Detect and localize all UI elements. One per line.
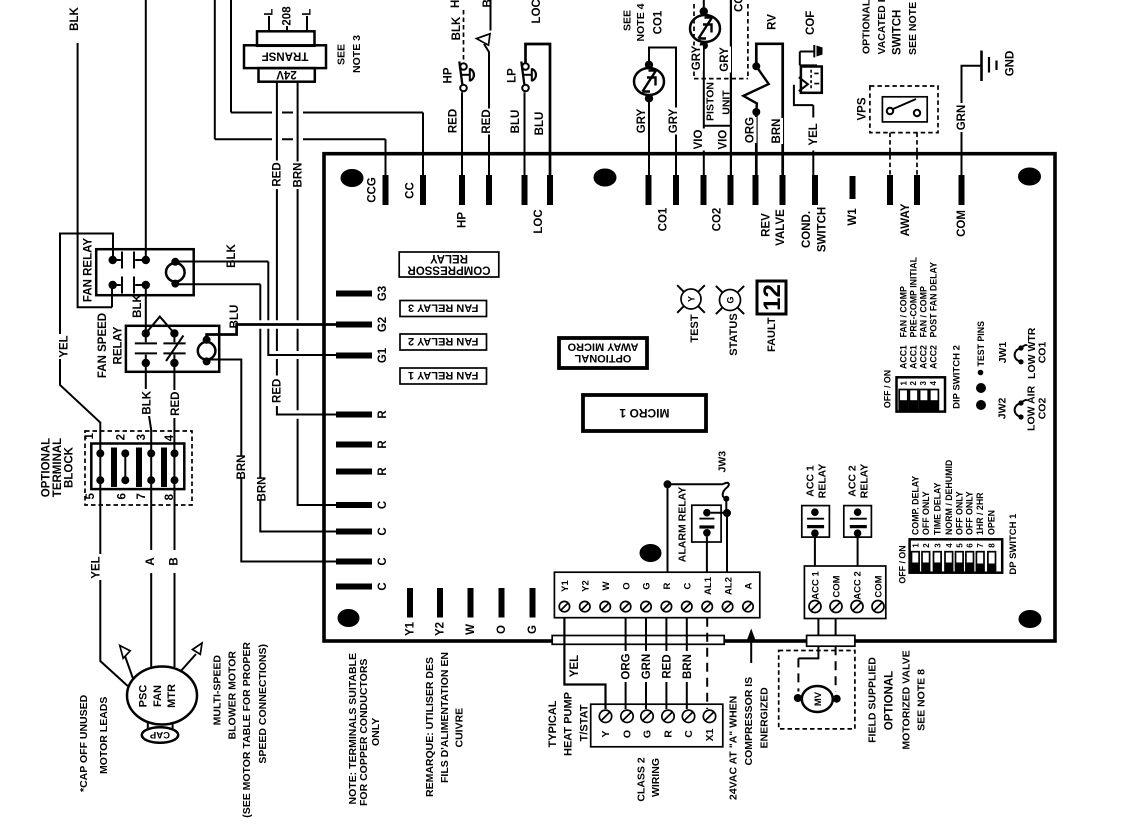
dashed BLK wire above HP: [463, 10, 465, 63]
svg-text:COF: COF: [805, 11, 817, 35]
svg-text:HP: HP: [457, 212, 469, 228]
wire BLK fan speed relay to block pin3: [146, 363, 151, 489]
svg-text:FAN RELAY 2: FAN RELAY 2: [408, 335, 478, 347]
svg-text:FAULT: FAULT: [766, 317, 778, 352]
wire YEL Y1 to tstat: [564, 618, 605, 709]
fault display 12: [757, 281, 786, 314]
terminal R1: [336, 412, 372, 418]
svg-text:VACATED PREMISES: VACATED PREMISES: [876, 0, 888, 55]
motorized valve MV: [794, 694, 802, 702]
svg-text:OPTIONAL: OPTIONAL: [40, 438, 52, 497]
arrow to A: [750, 641, 752, 663]
svg-text:FAN / COMP: FAN / COMP: [919, 286, 929, 337]
svg-text:Y1: Y1: [560, 579, 571, 591]
svg-text:RED: RED: [481, 109, 493, 133]
terminal G1: [336, 353, 372, 359]
svg-text:AWAY MICRO: AWAY MICRO: [567, 341, 638, 353]
svg-text:POST FAN DELAY: POST FAN DELAY: [929, 262, 939, 338]
unused lead arrow right: [180, 654, 196, 672]
svg-text:R: R: [662, 582, 673, 589]
svg-text:TEST: TEST: [689, 314, 701, 342]
dip switch 2: [897, 377, 946, 411]
svg-text:G1: G1: [377, 347, 389, 363]
svg-text:2: 2: [922, 543, 931, 548]
svg-text:Y2: Y2: [581, 580, 592, 592]
svg-text:REMARQUE: UTILISER DES: REMARQUE: UTILISER DES: [424, 657, 436, 797]
wire fan relay coil bottom to C2: [175, 284, 336, 531]
svg-text:RED: RED: [661, 654, 673, 678]
wire CCG feed horizontal: [215, 138, 386, 140]
wire BLK fan relay to fan speed relay: [145, 285, 147, 333]
wire CO1 loop: [649, 48, 676, 177]
terminal RV1: [753, 175, 759, 205]
micro 1 box: [583, 395, 706, 431]
terminal block body: [91, 444, 184, 490]
fan speed relay pins: [142, 329, 150, 337]
svg-text:PRE-COMP INITIAL: PRE-COMP INITIAL: [908, 256, 918, 337]
svg-text:24V: 24V: [276, 68, 297, 80]
svg-text:FAN SPEED: FAN SPEED: [97, 313, 109, 378]
svg-text:R: R: [377, 440, 389, 449]
svg-text:GRY: GRY: [691, 45, 703, 70]
svg-text:W1: W1: [847, 208, 859, 226]
terminal CCG: [383, 175, 389, 205]
svg-text:FAN / COMP: FAN / COMP: [898, 286, 908, 337]
svg-text:COMPRESSOR IS: COMPRESSOR IS: [743, 677, 755, 766]
svg-text:T/STAT: T/STAT: [578, 704, 590, 741]
svg-text:CO1: CO1: [658, 207, 670, 231]
svg-text:O: O: [622, 730, 634, 738]
unused lead arrow left: [125, 656, 134, 680]
terminal R2: [336, 442, 372, 448]
svg-text:ALARM RELAY: ALARM RELAY: [676, 487, 688, 562]
svg-text:CO: CO: [734, 0, 746, 12]
svg-text:SWITCH: SWITCH: [892, 10, 904, 55]
svg-text:STATUS: STATUS: [728, 313, 740, 355]
svg-text:R: R: [377, 410, 389, 419]
reversing valve coil RV: [756, 44, 782, 176]
svg-text:*CAP OFF UNUSED: *CAP OFF UNUSED: [78, 694, 90, 792]
svg-text:COND.: COND.: [801, 211, 813, 248]
wire RED HP to board: [461, 92, 463, 176]
svg-text:SPEED CONNECTIONS): SPEED CONNECTIONS): [257, 644, 269, 764]
wire from top to fan relay pin2: [145, 0, 147, 260]
wire CC stub: [422, 113, 424, 177]
dashed wires VPS to AWAY: [890, 133, 917, 176]
svg-text:JW3: JW3: [717, 451, 729, 473]
svg-text:FIELD SUPPLIED: FIELD SUPPLIED: [866, 657, 878, 743]
svg-text:REV: REV: [761, 213, 773, 237]
svg-text:AWAY: AWAY: [900, 203, 912, 236]
svg-text:ENERGIZED: ENERGIZED: [759, 687, 771, 749]
svg-text:CUIVRE: CUIVRE: [454, 708, 466, 748]
svg-text:5: 5: [955, 543, 964, 548]
piston unit rung: [704, 125, 731, 127]
svg-text:SEE NOTE 8: SEE NOTE 8: [916, 669, 928, 731]
terminal HP2: [486, 175, 492, 205]
wire COF to COND SWITCH: [794, 85, 813, 176]
wire CCG feed vertical: [214, 0, 216, 139]
svg-text:BLU: BLU: [229, 305, 241, 329]
terminal G2: [336, 322, 372, 328]
svg-text:BLOCK: BLOCK: [64, 446, 76, 488]
wire B block to motor: [174, 489, 176, 667]
ground symbol: [980, 51, 983, 82]
wire GRN: [645, 618, 647, 709]
svg-text:CC: CC: [405, 182, 417, 199]
svg-text:NOTE 4: NOTE 4: [635, 3, 647, 41]
fan relay contacts: [122, 252, 134, 294]
svg-text:B: B: [169, 557, 181, 565]
terminal CC: [420, 175, 426, 205]
thermistor CO1: [634, 68, 664, 95]
fan speed relay NO contact: [135, 343, 157, 353]
svg-text:ACC 2: ACC 2: [846, 465, 858, 497]
terminal Y1 (board bottom edge): [407, 588, 413, 618]
wire BRN coil to C3: [207, 360, 336, 562]
svg-text:C: C: [377, 582, 389, 590]
wire CO1 down: [648, 98, 650, 176]
svg-text:3: 3: [933, 543, 942, 548]
wire BRN transformer to C1: [298, 82, 336, 506]
svg-text:BLU: BLU: [510, 110, 522, 134]
wire BLU LP to board: [524, 92, 526, 176]
svg-text:AL2: AL2: [723, 577, 734, 595]
fan relay FR: [96, 249, 194, 295]
svg-text:1: 1: [900, 381, 909, 386]
svg-text:HEAT PUMP: HEAT PUMP: [562, 692, 574, 756]
svg-text:OFF ONLY: OFF ONLY: [965, 491, 975, 535]
svg-text:YEL: YEL: [91, 556, 103, 578]
svg-text:YEL: YEL: [569, 655, 581, 677]
svg-text:YEL: YEL: [808, 123, 820, 145]
svg-text:BRN: BRN: [256, 477, 268, 502]
wire GRN COM to GND: [962, 66, 982, 176]
fan speed relay linkage tent: [146, 317, 175, 334]
wire AL1 dashed to X1: [706, 618, 708, 709]
svg-text:RED: RED: [272, 162, 284, 186]
svg-text:CO1: CO1: [653, 10, 665, 34]
svg-text:DIP SWITCH 2: DIP SWITCH 2: [952, 345, 963, 409]
svg-text:CAP: CAP: [149, 729, 170, 740]
svg-text:RED: RED: [170, 392, 182, 416]
terminal C4: [336, 584, 372, 590]
svg-text:DP SWITCH 1: DP SWITCH 1: [1008, 513, 1019, 575]
svg-text:OPEN: OPEN: [987, 510, 997, 535]
svg-text:ACC1: ACC1: [898, 345, 908, 369]
svg-text:Y: Y: [600, 730, 612, 737]
svg-text:LOC: LOC: [531, 0, 543, 23]
svg-text:RELAY: RELAY: [113, 326, 125, 364]
svg-text:RV: RV: [767, 14, 779, 30]
terminal O: [499, 588, 505, 618]
svg-text:RELAY: RELAY: [816, 464, 828, 499]
svg-text:4: 4: [945, 543, 954, 548]
svg-text:B: B: [482, 0, 494, 8]
svg-text:OPTIONAL: OPTIONAL: [884, 671, 896, 730]
svg-text:Y2: Y2: [435, 622, 447, 636]
fan relay coil: [166, 263, 185, 282]
svg-text:FAN RELAY: FAN RELAY: [83, 238, 95, 302]
svg-text:NORM / DEHUMID: NORM / DEHUMID: [944, 460, 954, 535]
mounting hole bottom-left: [338, 609, 360, 627]
blower motor: [127, 667, 197, 725]
terminal AWAY2: [914, 175, 920, 205]
svg-text:AL1: AL1: [703, 576, 714, 595]
svg-text:8: 8: [988, 543, 997, 548]
svg-text:NOTE 3: NOTE 3: [351, 35, 363, 73]
svg-text:FAN RELAY 3: FAN RELAY 3: [408, 302, 478, 314]
terminal W: [468, 588, 474, 618]
terminal CO1a: [646, 175, 652, 205]
svg-text:X1: X1: [704, 728, 716, 741]
svg-text:L: L: [302, 9, 314, 16]
svg-text:HP: HP: [443, 67, 455, 83]
svg-text:FAN: FAN: [152, 685, 164, 707]
terminal LOC1: [522, 175, 528, 205]
svg-text:LP: LP: [507, 68, 519, 83]
fan relay 2 box: [400, 334, 487, 350]
svg-text:A: A: [145, 557, 157, 565]
mounting hole top-middle: [594, 169, 617, 187]
svg-text:Y: Y: [687, 296, 697, 302]
svg-text:MV: MV: [813, 691, 824, 706]
svg-text:BLU: BLU: [534, 112, 546, 136]
transformer line stubs: [268, 16, 270, 31]
svg-text:ACC 1: ACC 1: [804, 465, 816, 497]
svg-text:GND: GND: [1005, 51, 1017, 77]
svg-text:C: C: [377, 501, 389, 509]
terminal COM: [959, 175, 965, 205]
wire A block to motor: [150, 489, 152, 668]
terminal block bars: [111, 448, 117, 488]
svg-text:SEE: SEE: [335, 44, 347, 65]
wire BLU coil to G2: [207, 325, 336, 340]
terminal strip box: [554, 572, 759, 618]
svg-text:BRN: BRN: [292, 163, 304, 188]
terminal G: [530, 588, 536, 618]
svg-text:VPS: VPS: [857, 97, 869, 120]
svg-text:2: 2: [909, 381, 918, 386]
wire fan relay coil top to G1: [175, 262, 336, 356]
svg-text:BLK: BLK: [132, 293, 144, 317]
svg-text:OFF ONLY: OFF ONLY: [921, 491, 931, 535]
terminal AWAY1: [887, 175, 893, 205]
terminal W1: [850, 176, 856, 199]
svg-text:ACC1: ACC1: [908, 345, 918, 369]
wire RED with arrow to BLK line: [484, 44, 489, 176]
svg-text:FOR COPPER CONDUCTORS: FOR COPPER CONDUCTORS: [358, 659, 370, 806]
wire BRN: [686, 618, 688, 709]
svg-text:YEL: YEL: [59, 335, 71, 357]
svg-text:VIO: VIO: [693, 130, 705, 150]
svg-text:R: R: [663, 730, 675, 738]
svg-text:BRN: BRN: [771, 119, 783, 144]
line from top at HP2: [490, 0, 492, 31]
svg-text:JW2: JW2: [996, 397, 1008, 419]
svg-text:OPTIONAL: OPTIONAL: [861, 0, 873, 54]
svg-text:CO1: CO1: [1036, 342, 1048, 364]
terminal C2: [336, 529, 372, 535]
svg-text:7: 7: [136, 493, 148, 499]
svg-text:G3: G3: [377, 286, 389, 301]
svg-text:ONLY: ONLY: [370, 718, 382, 746]
svg-text:1HR / 2HR: 1HR / 2HR: [975, 492, 985, 535]
svg-text:MOTOR LEADS: MOTOR LEADS: [98, 697, 110, 774]
svg-text:CLASS 2: CLASS 2: [635, 757, 647, 802]
svg-text:OFF / ON: OFF / ON: [898, 545, 908, 583]
svg-text:TEST PINS: TEST PINS: [976, 321, 986, 367]
svg-text:ORG: ORG: [621, 653, 633, 679]
svg-text:COM: COM: [874, 575, 885, 597]
svg-text:CO2: CO2: [712, 208, 724, 232]
wire YEL fan relay to terminal block: [60, 234, 113, 490]
svg-text:A: A: [744, 582, 755, 589]
wire CC feed vertical: [230, 0, 232, 113]
thermistor CO2: [690, 15, 720, 42]
svg-text:BRN: BRN: [682, 654, 694, 679]
motorized valve dashed box: [779, 651, 855, 729]
svg-text:SEE: SEE: [622, 10, 634, 31]
svg-text:W: W: [601, 581, 612, 590]
terminal Y2: [437, 588, 443, 618]
svg-text:208: 208: [282, 6, 294, 26]
svg-text:LOC: LOC: [533, 209, 545, 233]
wire CCG stub: [385, 139, 387, 176]
svg-text:COM: COM: [832, 575, 843, 597]
svg-text:3: 3: [136, 434, 148, 440]
svg-text:12: 12: [759, 284, 786, 311]
svg-text:C: C: [683, 582, 694, 589]
svg-text:JW1: JW1: [997, 342, 1009, 364]
svg-text:OFF ONLY: OFF ONLY: [954, 491, 964, 535]
wire BLK down to fan relay: [78, 43, 112, 307]
svg-text:PSC: PSC: [138, 685, 150, 708]
svg-text:FAN RELAY 1: FAN RELAY 1: [408, 369, 478, 381]
vacated premises switch VPS dashed box: [870, 86, 938, 133]
svg-text:RED: RED: [272, 379, 284, 403]
svg-text:1: 1: [911, 543, 920, 548]
terminal CO2b: [728, 175, 734, 205]
terminal R3: [336, 469, 372, 475]
svg-text:ORG: ORG: [744, 117, 756, 143]
svg-text:RED: RED: [448, 109, 460, 133]
svg-text:7: 7: [976, 543, 985, 548]
svg-text:C: C: [683, 730, 695, 738]
mounting hole bottom-right: [1019, 610, 1042, 628]
wire RED: [665, 618, 667, 709]
svg-text:BLOWER MOTOR: BLOWER MOTOR: [227, 651, 239, 740]
svg-text:5: 5: [85, 493, 97, 500]
svg-text:OFF / ON: OFF / ON: [883, 370, 893, 408]
svg-text:G: G: [642, 582, 653, 589]
svg-text:SWITCH: SWITCH: [817, 207, 829, 252]
svg-text:(SEE MOTOR TABLE FOR PROPER: (SEE MOTOR TABLE FOR PROPER: [241, 642, 253, 818]
svg-text:COMPRESSOR: COMPRESSOR: [407, 264, 491, 276]
test lamp: [681, 289, 701, 309]
fuse link COF: [800, 45, 817, 65]
svg-text:L: L: [264, 9, 276, 16]
svg-text:ACC 2: ACC 2: [853, 571, 864, 600]
svg-text:TERMINAL: TERMINAL: [52, 438, 64, 497]
svg-text:BRN: BRN: [236, 455, 248, 480]
wire ORG: [625, 618, 627, 709]
svg-text:6: 6: [966, 543, 975, 548]
terminal CO1b: [673, 175, 679, 205]
svg-text:FILS D'ALIMENTATION EN: FILS D'ALIMENTATION EN: [439, 652, 451, 783]
svg-text:G: G: [726, 296, 736, 303]
mounting hole middle: [640, 544, 662, 562]
svg-text:WIRING: WIRING: [650, 758, 662, 797]
terminal CO2a: [701, 175, 707, 205]
svg-text:TRANSF: TRANSF: [262, 50, 309, 62]
svg-text:PISTON: PISTON: [705, 82, 717, 121]
svg-text:GRY: GRY: [636, 108, 648, 133]
wire CO2 down: [703, 45, 705, 176]
svg-text:24VAC AT "A" WHEN: 24VAC AT "A" WHEN: [728, 696, 740, 800]
svg-text:CCG: CCG: [367, 177, 379, 203]
strip screws: [559, 601, 753, 611]
svg-text:GRY: GRY: [719, 47, 731, 72]
acc terminal box: [804, 566, 885, 619]
svg-text:VALVE: VALVE: [775, 209, 787, 246]
terminal C1: [336, 502, 372, 508]
terminal block pin dots: [96, 449, 104, 457]
terminal C3: [336, 559, 372, 565]
svg-text:BLK: BLK: [69, 6, 81, 30]
svg-text:MULTI-SPEED: MULTI-SPEED: [211, 655, 223, 726]
svg-text:UNIT: UNIT: [721, 90, 733, 115]
labels VIO VIO: [692, 129, 706, 151]
svg-text:BLK: BLK: [451, 16, 463, 40]
optional terminal block dashed outline: [85, 431, 192, 505]
mounting hole top-right: [1018, 168, 1041, 186]
svg-text:ACC2: ACC2: [929, 345, 939, 369]
svg-text:R: R: [377, 467, 389, 476]
svg-text:MICRO 1: MICRO 1: [619, 406, 669, 420]
svg-text:COM: COM: [956, 210, 968, 237]
wire RED fan speed relay to block pin4: [173, 363, 175, 489]
svg-text:3: 3: [919, 381, 928, 386]
svg-text:RELAY: RELAY: [430, 252, 468, 264]
svg-text:ACC2: ACC2: [919, 345, 929, 369]
terminal LOC2: [547, 175, 553, 205]
svg-text:C: C: [377, 527, 389, 535]
wires acc box to mv: [817, 619, 819, 636]
svg-text:4: 4: [929, 381, 938, 386]
svg-text:TIME DELAY: TIME DELAY: [932, 482, 942, 535]
alarm relay wires: [706, 537, 708, 573]
control board outline: [324, 154, 1055, 641]
wire LOC loop: [526, 44, 551, 176]
svg-text:GRN: GRN: [641, 654, 653, 680]
wire CO2b thick: [730, 0, 732, 176]
optional away micro box: [559, 338, 647, 368]
svg-text:MOTORIZED VALVE: MOTORIZED VALVE: [900, 650, 912, 749]
mv separator bar: [807, 635, 855, 646]
svg-text:BLK: BLK: [142, 390, 154, 414]
terminal HP: [459, 175, 465, 205]
test pins: [976, 383, 986, 393]
svg-text:4: 4: [164, 434, 176, 441]
svg-text:GRY: GRY: [668, 108, 680, 133]
wire YEL block to motor cap: [100, 489, 127, 686]
terminal G3: [336, 291, 372, 297]
fan speed relay FSR: [126, 326, 219, 372]
transformer 24V TRANSF: [257, 31, 315, 46]
svg-text:W: W: [465, 624, 477, 635]
svg-text:ACC 1: ACC 1: [811, 571, 822, 600]
